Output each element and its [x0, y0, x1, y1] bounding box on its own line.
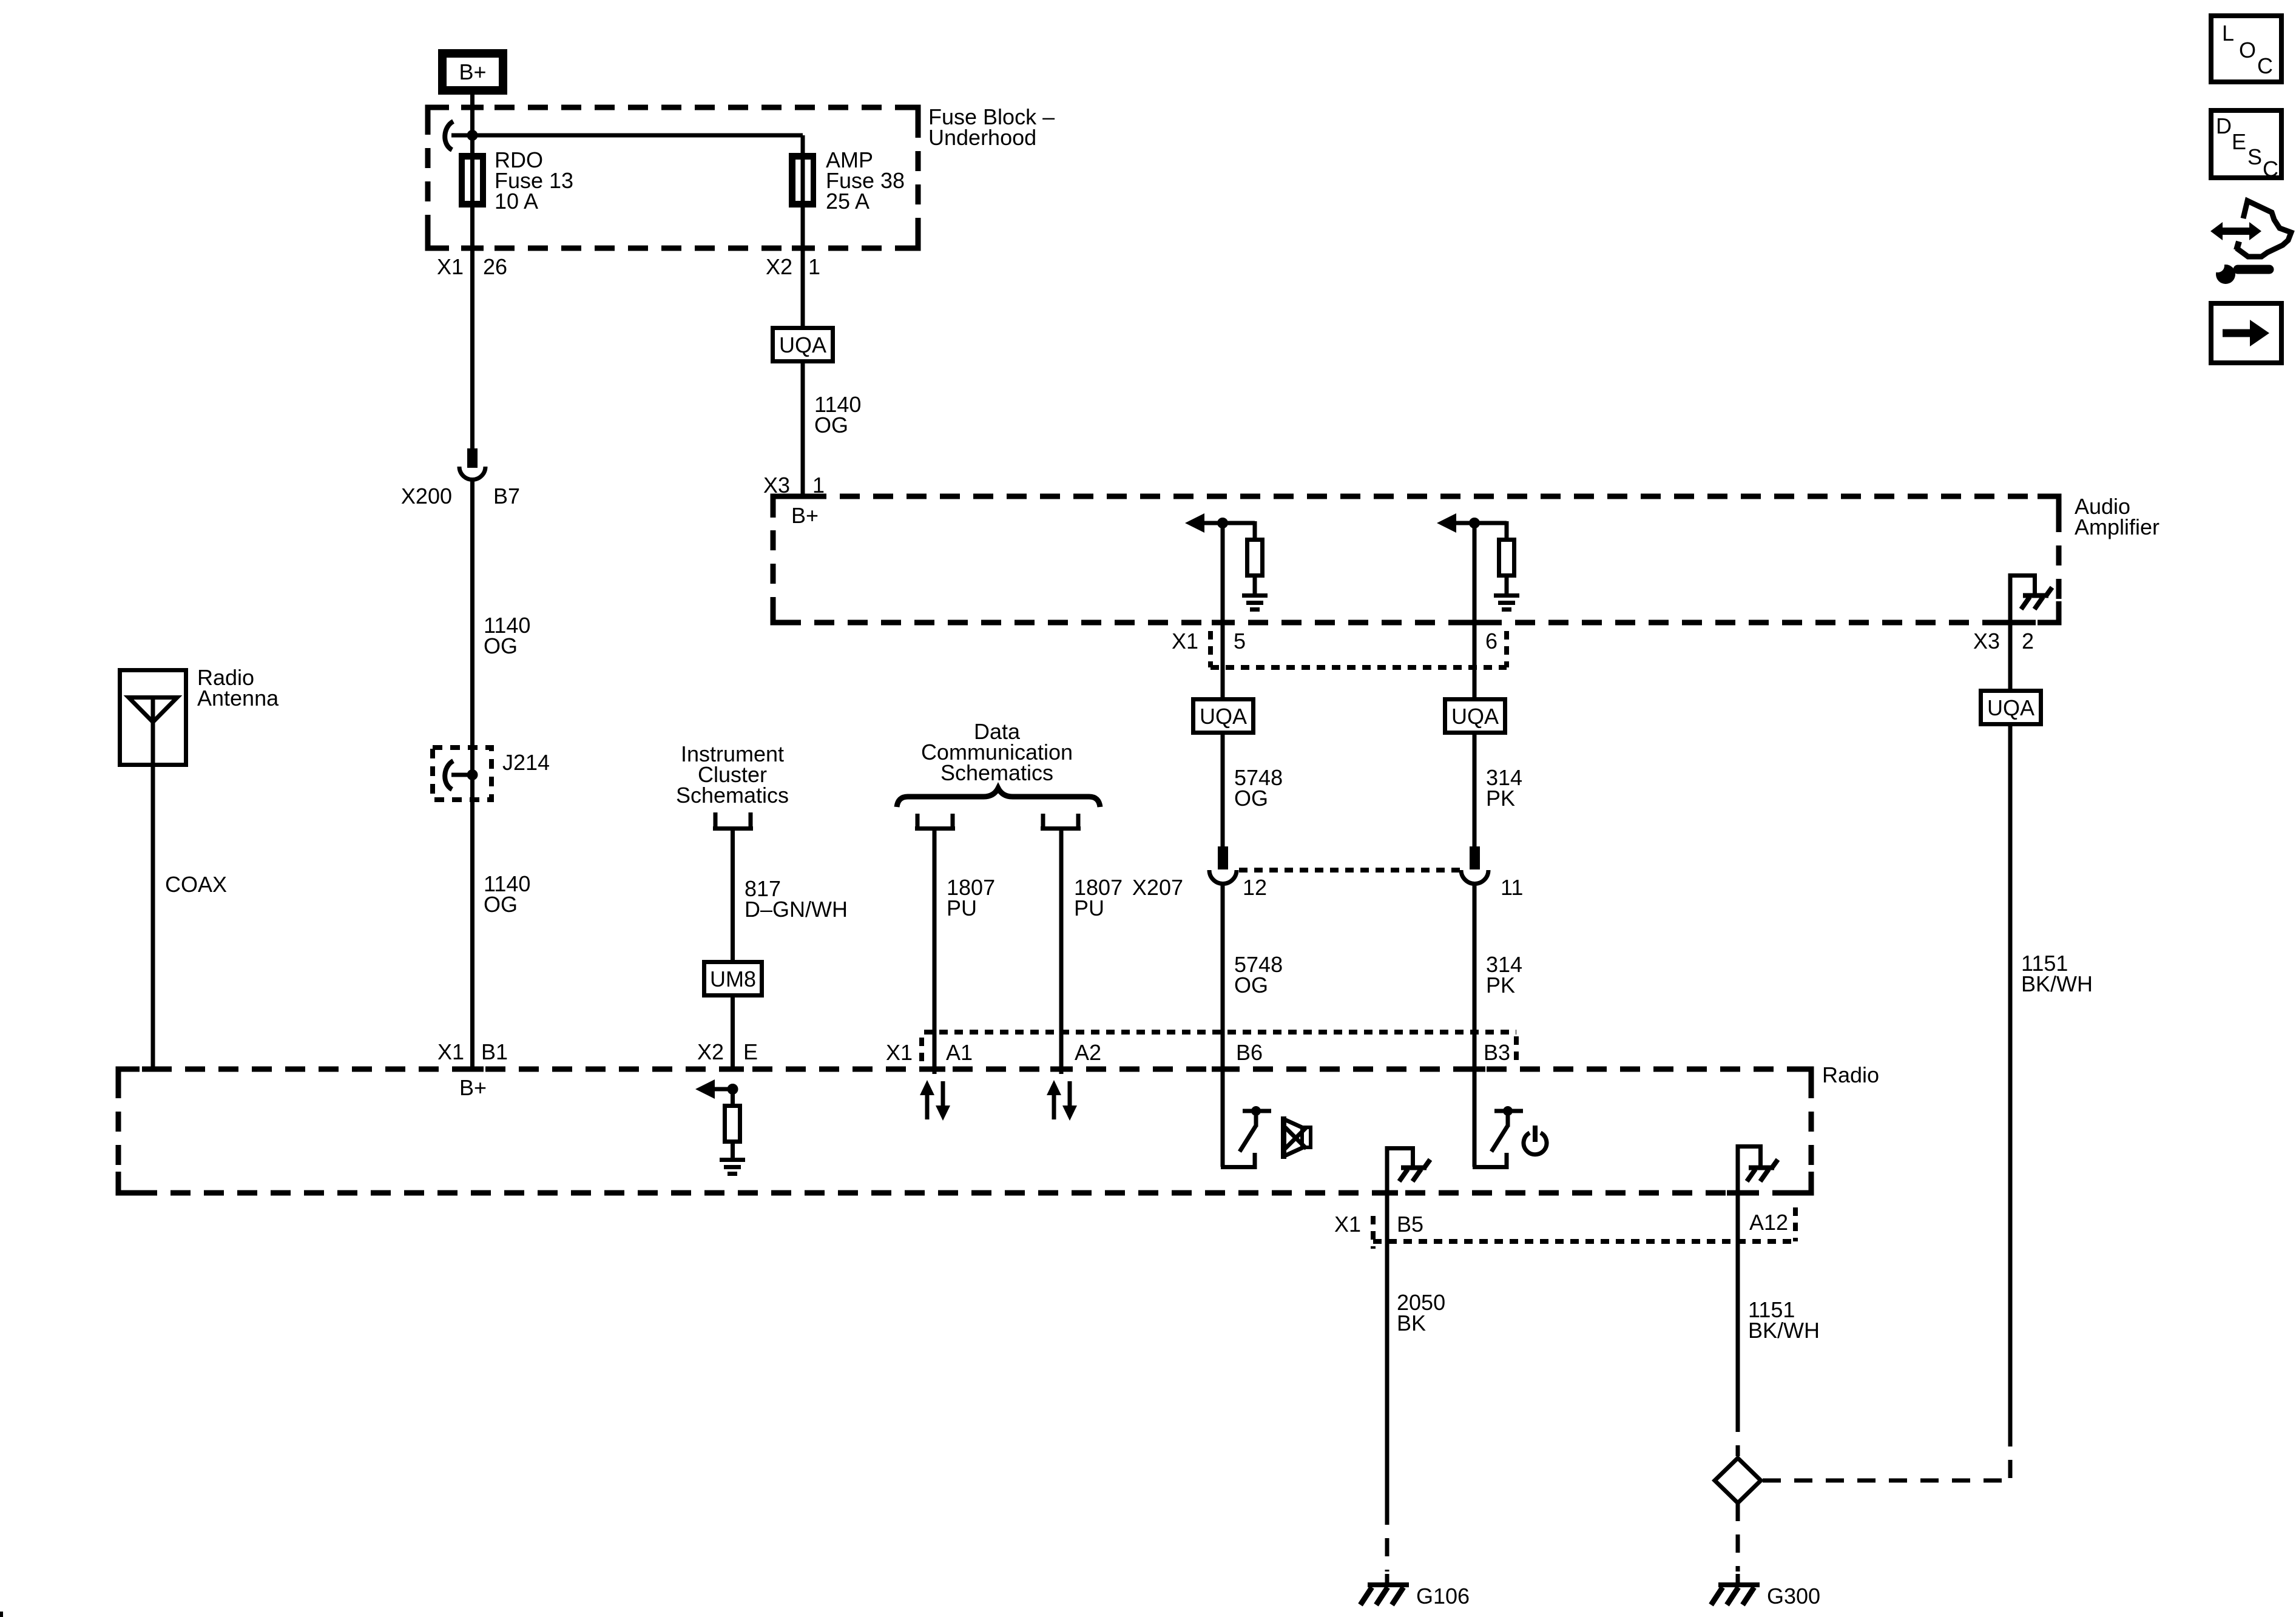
- amplifier circuit 2: node with arrow feed: [1437, 513, 1507, 533]
- svg-text:E: E: [743, 1039, 758, 1064]
- radio B3 power switch: [1473, 1106, 1523, 1169]
- dashed wire A12 to splice diamond: [1736, 1414, 1740, 1456]
- splice J214 junction dot and arc: [467, 769, 478, 780]
- svg-text:Schematics: Schematics: [940, 760, 1053, 785]
- radio dashed box: [118, 1069, 1811, 1193]
- svg-text:L: L: [2222, 21, 2234, 46]
- wire X207-12 to radio B6 5748 OG: [1221, 883, 1225, 1167]
- UQA option label box 2: [1194, 700, 1254, 733]
- chassis ground symbol small (radio B5): [1399, 1160, 1430, 1181]
- svg-text:A2: A2: [1075, 1040, 1101, 1065]
- splice J214 dashed box: [433, 748, 491, 800]
- dashed wire to G106: [1385, 1507, 1389, 1571]
- UQA option label box 1: [773, 328, 833, 362]
- chassis ground symbol small (amp X3-2): [2021, 587, 2052, 609]
- wire amp pin 6 output: [1473, 523, 1477, 848]
- svg-text:X1: X1: [437, 254, 464, 279]
- svg-text:O: O: [2239, 38, 2256, 62]
- node B+ splice junction: [467, 130, 478, 141]
- fuse AMP Fuse 38 25A: [791, 135, 905, 214]
- radio E resistor to ground: [725, 1089, 740, 1158]
- connector X1 bracket dotted (radio bottom): [1373, 1207, 1795, 1249]
- svg-text:X1: X1: [886, 1040, 913, 1065]
- amplifier circuit 2: resistor to ground: [1499, 521, 1514, 593]
- wire radio A12 down 1151 BK/WH: [1736, 1144, 1740, 1414]
- wire UQA2 to X207-12: [1221, 732, 1225, 848]
- svg-text:25 A: 25 A: [826, 189, 869, 214]
- amplifier circuit 1: node with arrow feed: [1185, 513, 1255, 533]
- svg-text:COAX: COAX: [165, 872, 227, 897]
- nav icon hood with wrench: [2210, 201, 2291, 284]
- off-page bracket instrument cluster: [713, 812, 753, 829]
- box corner dashes and wire-crossing ticks: [118, 107, 2059, 1193]
- svg-text:OG: OG: [484, 892, 518, 917]
- svg-text:Radio: Radio: [1822, 1062, 1879, 1087]
- wire radio B5 to G106 2050 BK: [1385, 1146, 1389, 1507]
- svg-text:26: 26: [483, 254, 507, 279]
- svg-text:B+: B+: [459, 59, 486, 84]
- svg-text:BK: BK: [1397, 1311, 1426, 1335]
- radio E termination: node dot and arrow: [695, 1079, 738, 1099]
- svg-text:UM8: UM8: [710, 967, 756, 991]
- fuse RDO Fuse 13 10A: [461, 147, 574, 214]
- connector X207 pin 11: [1461, 846, 1488, 884]
- svg-text:Amplifier: Amplifier: [2075, 515, 2159, 539]
- radio antenna component box: [120, 670, 186, 768]
- wire 1807 PU to radio A1: [933, 829, 937, 1074]
- UQA option label box 4: [1981, 691, 2041, 724]
- ground symbol (IEC) amp circuit 2: [1494, 593, 1519, 612]
- audio amplifier dashed box: [773, 496, 2059, 623]
- serial data arrows at A2: [1047, 1080, 1077, 1121]
- svg-text:D–GN/WH: D–GN/WH: [745, 897, 848, 922]
- radio A12 ground hook: [1738, 1144, 1763, 1166]
- ground G106 chassis symbol: [1360, 1582, 1409, 1605]
- svg-text:Antenna: Antenna: [197, 686, 279, 711]
- svg-text:G300: G300: [1767, 1584, 1820, 1609]
- svg-text:X1: X1: [1334, 1212, 1361, 1237]
- wire amp X3-2 output: [2008, 573, 2013, 690]
- wire RDO fuse output circuit 1140 OG: [470, 208, 474, 450]
- UM8 option label box: [704, 962, 762, 996]
- connector X207 dotted pass-through line: [1239, 868, 1460, 873]
- radio B6 speaker switch: [1221, 1106, 1271, 1169]
- amplifier circuit 1: resistor to ground: [1248, 521, 1263, 593]
- speaker mute icon: [1281, 1116, 1311, 1159]
- dashed wire diamond to amp 1151: [1763, 1479, 2012, 1483]
- nav icon arrow: [2211, 303, 2281, 363]
- svg-text:PU: PU: [1074, 896, 1104, 920]
- fuse block underhood dashed box: [428, 107, 918, 248]
- svg-text:6: 6: [1485, 629, 1497, 653]
- svg-text:12: 12: [1243, 875, 1267, 900]
- UQA option label box 3: [1445, 700, 1505, 733]
- nav icon DESC: [2211, 110, 2281, 181]
- wire UQA3 to X207-11: [1473, 732, 1477, 848]
- svg-text:OG: OG: [1234, 786, 1268, 811]
- svg-text:Underhood: Underhood: [928, 125, 1036, 150]
- svg-text:C: C: [2263, 157, 2278, 181]
- svg-text:PK: PK: [1486, 973, 1515, 998]
- power icon: [1524, 1126, 1547, 1155]
- svg-text:B3: B3: [1484, 1040, 1510, 1065]
- wire 817 D-GN/WH to UM8: [731, 829, 735, 962]
- svg-text:X1: X1: [1172, 629, 1198, 653]
- svg-text:UQA: UQA: [1451, 704, 1499, 729]
- ground symbol (IEC) amp circuit 1: [1242, 593, 1268, 612]
- splice arc symbol at fuse block feed: [445, 121, 453, 150]
- svg-text:X207: X207: [1132, 875, 1183, 900]
- page corner mark: [0, 1612, 3, 1617]
- svg-text:BK/WH: BK/WH: [2021, 971, 2093, 996]
- svg-text:PK: PK: [1486, 786, 1515, 811]
- dashed wire amp 1151 down to diamond: [2008, 1428, 2013, 1479]
- svg-text:S: S: [2247, 144, 2262, 169]
- ground symbol (IEC) radio E: [720, 1158, 745, 1176]
- splice diamond: [1715, 1458, 1761, 1503]
- svg-text:G106: G106: [1416, 1584, 1470, 1609]
- chassis ground symbol small (radio A12): [1747, 1160, 1778, 1181]
- svg-text:D: D: [2216, 113, 2232, 138]
- svg-text:UQA: UQA: [1200, 704, 1247, 729]
- svg-text:10 A: 10 A: [495, 189, 538, 214]
- svg-text:E: E: [2232, 129, 2246, 154]
- svg-text:B7: B7: [493, 484, 520, 508]
- B+ battery terminal box: [442, 53, 503, 90]
- svg-text:1: 1: [808, 254, 820, 279]
- svg-text:BK/WH: BK/WH: [1748, 1318, 1820, 1343]
- off-page bracket data lead A2: [1041, 814, 1081, 829]
- svg-text:OG: OG: [484, 633, 518, 658]
- svg-text:B+: B+: [459, 1075, 487, 1100]
- svg-text:UQA: UQA: [1987, 695, 2034, 720]
- svg-text:Schematics: Schematics: [676, 783, 789, 808]
- svg-text:A12: A12: [1749, 1210, 1788, 1235]
- off-page bracket data lead A1: [915, 814, 955, 829]
- svg-text:C: C: [2257, 53, 2273, 78]
- svg-text:UQA: UQA: [779, 333, 826, 357]
- svg-text:B+: B+: [791, 503, 819, 528]
- svg-text:OG: OG: [1234, 973, 1268, 998]
- svg-text:11: 11: [1501, 875, 1523, 900]
- radio B5 ground hook: [1387, 1146, 1415, 1166]
- svg-text:B5: B5: [1397, 1212, 1423, 1237]
- connector X1 bracket dotted (amp): [1210, 631, 1507, 667]
- svg-text:B1: B1: [481, 1039, 508, 1064]
- wire 1807 PU to radio A2: [1059, 829, 1064, 1074]
- ground G300 chassis symbol: [1711, 1582, 1760, 1605]
- connector X1 bracket dotted (radio top): [922, 1032, 1516, 1067]
- wire UM8 to radio X2-E: [731, 996, 735, 1070]
- wire AMP fuse output to UQA: [801, 205, 805, 328]
- svg-text:2: 2: [2022, 629, 2034, 653]
- svg-text:5: 5: [1234, 629, 1246, 653]
- wire UQA4 down 1151 BK/WH: [2008, 724, 2013, 1428]
- svg-text:X3: X3: [1973, 629, 2000, 653]
- wire COAX antenna cable: [151, 767, 155, 1070]
- dashed wire diamond to G300: [1736, 1503, 1740, 1571]
- wire antenna lead 1140 OG below X200: [470, 479, 474, 1070]
- wire amp pin 5 output: [1221, 523, 1225, 848]
- nav icon LOC: [2211, 16, 2281, 82]
- serial data arrows at A1: [920, 1080, 950, 1121]
- wire junction to AMP fuse branch: [451, 133, 803, 138]
- wire B+ feed down into fuse block: [470, 95, 474, 155]
- connector X207 pin 12: [1209, 846, 1237, 884]
- connector X200 pin B7: [459, 448, 485, 480]
- svg-text:X200: X200: [401, 484, 452, 508]
- curly brace over data leads: [897, 788, 1100, 807]
- svg-text:J214: J214: [502, 750, 550, 775]
- svg-text:OG: OG: [814, 413, 848, 437]
- amplifier X3-2 ground hook inside box: [2010, 573, 2037, 593]
- wire X207-11 to radio B3 314 PK: [1473, 883, 1477, 1167]
- svg-text:A1: A1: [946, 1040, 973, 1065]
- svg-text:PU: PU: [947, 896, 977, 920]
- svg-text:X2: X2: [697, 1039, 724, 1064]
- wire UQA to amplifier X3-1 1140 OG: [801, 362, 805, 499]
- svg-text:X1: X1: [437, 1039, 464, 1064]
- svg-text:B6: B6: [1236, 1040, 1263, 1065]
- svg-text:X2: X2: [766, 254, 792, 279]
